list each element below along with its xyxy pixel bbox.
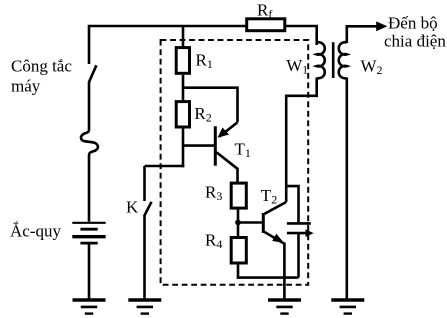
label Đến bộ chia điện [384, 14, 446, 51]
wire T1 base [183, 144, 215, 147]
svg-text:R1: R1 [196, 51, 213, 72]
transistor T1 [215, 122, 251, 169]
wire base junction to switch K [145, 165, 185, 168]
label Công tắc máy [11, 56, 72, 95]
transformer secondary W2 [339, 42, 383, 78]
resistor R4 [205, 231, 246, 264]
resistor R1 [176, 48, 213, 74]
battery Ắc-quy [10, 221, 106, 243]
transistor T2 [261, 186, 286, 244]
svg-text:chia điện: chia điện [384, 32, 446, 51]
transformer core [332, 42, 335, 78]
wire T1 collector to R3 [236, 168, 239, 183]
wire W2 bottom to ground [345, 78, 348, 301]
svg-text:T1: T1 [235, 139, 251, 160]
svg-text:K: K [126, 198, 139, 217]
svg-text:Công tắc: Công tắc [11, 56, 72, 75]
switch K blade [144, 202, 151, 216]
wire Rf to W1 top [286, 26, 317, 45]
wire R1 to R2 [182, 75, 185, 101]
transformer primary W1 [286, 42, 325, 78]
wire main rail top [182, 26, 185, 47]
output arrow to distributor [376, 21, 387, 31]
wire switch to battery with break squiggle [81, 82, 98, 222]
resistor R3 [205, 183, 246, 209]
wire R2 to base junction [182, 129, 185, 168]
wire R4 to bottom rail [237, 265, 240, 279]
wire bottom rail [237, 276, 299, 279]
wire R3 to R4 [237, 210, 240, 237]
svg-text:Ắc-quy: Ắc-quy [10, 221, 61, 240]
wire capacitor top lead [285, 186, 299, 222]
wire top bus [89, 25, 246, 28]
svg-text:máy: máy [11, 77, 41, 96]
svg-text:W1: W1 [286, 56, 308, 77]
svg-text:W2: W2 [361, 56, 383, 77]
dashed control-box outline [161, 40, 309, 285]
wire W2 top to output [347, 26, 379, 43]
capacitor C [287, 223, 314, 237]
wire W1 bottom to T2 collector [286, 78, 317, 203]
wire ignition-switch branch top [88, 25, 91, 64]
svg-text:R2: R2 [194, 104, 211, 125]
resistor Rf [247, 1, 285, 31]
switch Công tắc máy blade [89, 65, 97, 82]
wire capacitor bottom lead [297, 234, 300, 278]
ground under K [128, 300, 161, 314]
switch K upper lead [143, 166, 146, 201]
resistor R2 [176, 102, 212, 127]
svg-text:Đến bộ: Đến bộ [388, 14, 438, 33]
node R3-R4 junction [235, 220, 241, 226]
ground under battery [73, 300, 106, 314]
svg-text:T2: T2 [261, 186, 277, 207]
wire T2 base [238, 221, 262, 224]
wire K to ground [143, 215, 146, 300]
svg-text:R3: R3 [205, 183, 222, 204]
wire battery to ground [88, 244, 91, 300]
svg-text:R4: R4 [205, 231, 222, 252]
wire to T1 emitter corner [183, 88, 238, 123]
ground under T2 [268, 300, 301, 314]
ground under W2 [331, 300, 364, 314]
svg-text:Rf: Rf [257, 1, 272, 22]
wire T2 emitter to ground [283, 243, 286, 301]
